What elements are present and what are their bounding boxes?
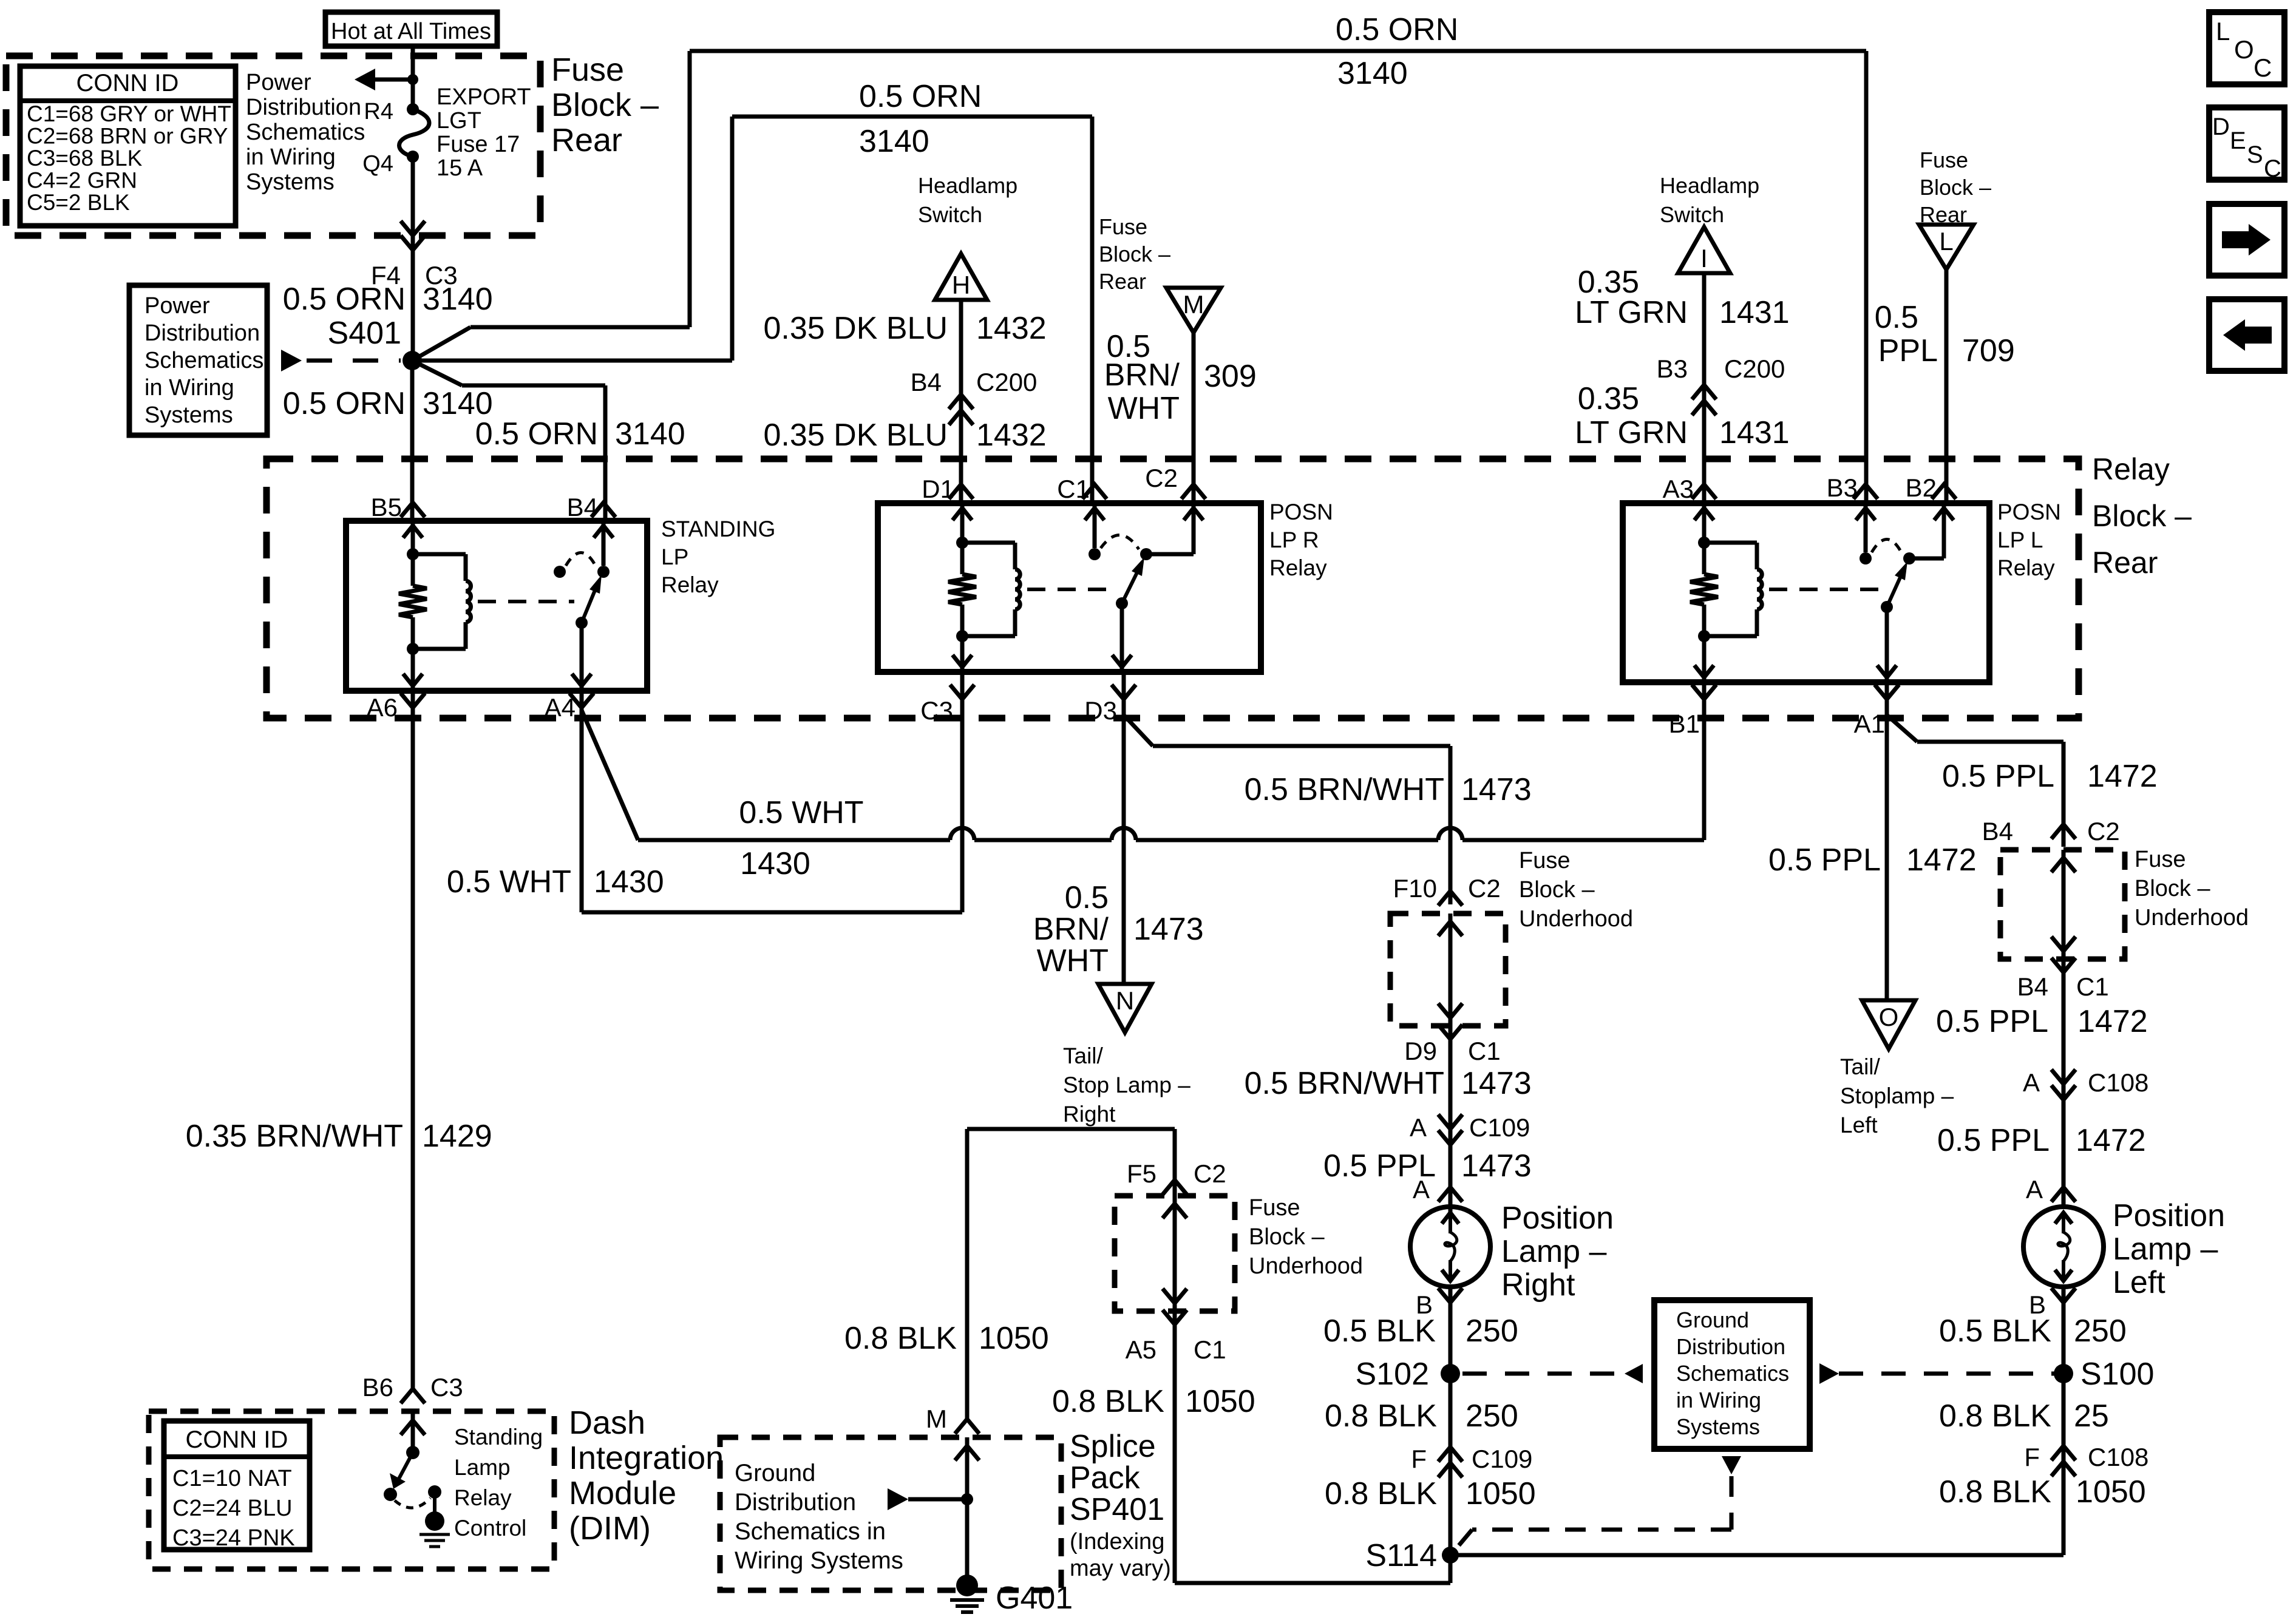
svg-text:Relay: Relay xyxy=(1997,555,2055,580)
svg-text:Standing: Standing xyxy=(454,1425,543,1449)
svg-text:A: A xyxy=(1413,1175,1430,1204)
svg-text:Lamp –: Lamp – xyxy=(2113,1232,2218,1267)
svg-text:L: L xyxy=(1939,227,1953,256)
svg-text:3140: 3140 xyxy=(615,416,685,452)
svg-text:Lamp –: Lamp – xyxy=(1501,1234,1607,1269)
svg-text:Relay: Relay xyxy=(1269,555,1327,580)
svg-text:1473: 1473 xyxy=(1133,912,1204,947)
svg-text:C108: C108 xyxy=(2088,1068,2148,1097)
svg-text:WHT: WHT xyxy=(1108,391,1180,426)
svg-text:1472: 1472 xyxy=(2076,1123,2146,1158)
svg-text:Fuse: Fuse xyxy=(551,52,624,88)
svg-text:0.5: 0.5 xyxy=(1065,880,1109,915)
svg-text:I: I xyxy=(1700,244,1708,273)
svg-text:Schematics in: Schematics in xyxy=(735,1518,886,1545)
svg-text:LP R: LP R xyxy=(1269,527,1319,552)
svg-text:F: F xyxy=(1411,1445,1427,1473)
svg-text:Underhood: Underhood xyxy=(2135,905,2249,931)
svg-text:3140: 3140 xyxy=(1337,56,1408,91)
svg-text:0.5 WHT: 0.5 WHT xyxy=(447,864,571,900)
svg-text:LT GRN: LT GRN xyxy=(1575,415,1688,450)
svg-text:1050: 1050 xyxy=(2076,1474,2146,1510)
svg-text:0.8 BLK: 0.8 BLK xyxy=(844,1321,957,1356)
svg-text:Right: Right xyxy=(1501,1267,1575,1303)
svg-text:Schematics: Schematics xyxy=(246,120,365,145)
svg-text:A: A xyxy=(1410,1113,1427,1142)
svg-text:0.5 ORN: 0.5 ORN xyxy=(1336,12,1458,47)
svg-text:Left: Left xyxy=(1840,1113,1878,1137)
svg-text:in Wiring: in Wiring xyxy=(246,144,336,170)
svg-text:A: A xyxy=(2023,1068,2040,1097)
svg-text:S401: S401 xyxy=(328,316,401,351)
svg-text:3140: 3140 xyxy=(423,386,493,421)
svg-text:0.8 BLK: 0.8 BLK xyxy=(1325,1398,1437,1434)
svg-text:S100: S100 xyxy=(2080,1357,2154,1392)
svg-text:709: 709 xyxy=(1962,333,2015,368)
svg-text:1472: 1472 xyxy=(2077,1004,2148,1039)
svg-text:Block –: Block – xyxy=(1519,877,1595,903)
svg-text:Switch: Switch xyxy=(918,202,982,227)
svg-text:Schematics: Schematics xyxy=(144,348,263,373)
svg-text:Position: Position xyxy=(1501,1201,1614,1236)
svg-text:250: 250 xyxy=(1466,1314,1518,1349)
svg-text:STANDING: STANDING xyxy=(661,517,775,541)
svg-text:C3=24 PNK: C3=24 PNK xyxy=(172,1525,295,1551)
svg-text:Lamp: Lamp xyxy=(454,1455,511,1480)
svg-text:M: M xyxy=(926,1405,947,1433)
svg-text:1430: 1430 xyxy=(594,864,664,900)
svg-text:0.5 ORN: 0.5 ORN xyxy=(859,79,982,114)
svg-text:Block –: Block – xyxy=(1920,175,1991,200)
svg-text:1472: 1472 xyxy=(2087,759,2158,794)
svg-text:Block –: Block – xyxy=(2092,499,2192,533)
svg-text:Position: Position xyxy=(2113,1198,2225,1233)
svg-text:may vary): may vary) xyxy=(1070,1556,1171,1581)
svg-text:0.5 BRN/WHT: 0.5 BRN/WHT xyxy=(1245,772,1444,807)
svg-text:0.8 BLK: 0.8 BLK xyxy=(1325,1476,1437,1511)
svg-text:C1: C1 xyxy=(2076,972,2109,1001)
svg-text:C1: C1 xyxy=(1468,1037,1501,1065)
svg-text:B1: B1 xyxy=(1669,710,1700,738)
svg-text:Ground: Ground xyxy=(1676,1307,1749,1332)
svg-text:C3=68 BLK: C3=68 BLK xyxy=(27,146,143,171)
svg-text:Relay: Relay xyxy=(661,572,719,597)
svg-text:Control: Control xyxy=(454,1516,526,1541)
svg-text:1429: 1429 xyxy=(422,1119,492,1154)
svg-text:A6: A6 xyxy=(367,693,398,722)
svg-text:0.5 ORN: 0.5 ORN xyxy=(283,282,406,317)
svg-text:C3: C3 xyxy=(920,696,953,725)
svg-text:O: O xyxy=(2234,35,2254,64)
svg-text:Pack: Pack xyxy=(1070,1460,1141,1496)
svg-text:S: S xyxy=(2247,141,2263,168)
svg-text:Ground: Ground xyxy=(735,1460,815,1486)
svg-text:C109: C109 xyxy=(1469,1113,1530,1142)
svg-text:Systems: Systems xyxy=(1676,1414,1760,1439)
svg-text:N: N xyxy=(1116,986,1134,1015)
svg-text:Distribution: Distribution xyxy=(735,1489,856,1516)
svg-text:Distribution: Distribution xyxy=(246,95,361,120)
svg-text:Systems: Systems xyxy=(144,402,233,428)
svg-text:C108: C108 xyxy=(2088,1443,2148,1471)
svg-text:S114: S114 xyxy=(1365,1538,1437,1573)
svg-text:Stop Lamp –: Stop Lamp – xyxy=(1063,1073,1190,1097)
svg-text:0.5 WHT: 0.5 WHT xyxy=(739,795,863,830)
svg-text:1473: 1473 xyxy=(1461,772,1532,807)
svg-text:BRN/: BRN/ xyxy=(1033,912,1109,947)
svg-text:C4=2 GRN: C4=2 GRN xyxy=(27,168,137,193)
svg-text:Left: Left xyxy=(2113,1265,2165,1300)
svg-text:3140: 3140 xyxy=(859,124,929,159)
svg-text:CONN ID: CONN ID xyxy=(186,1426,288,1453)
svg-text:CONN ID: CONN ID xyxy=(76,70,179,97)
svg-text:0.8 BLK: 0.8 BLK xyxy=(1939,1474,2051,1510)
svg-text:Rear: Rear xyxy=(1099,269,1146,294)
svg-text:0.5 ORN: 0.5 ORN xyxy=(283,386,406,421)
svg-text:250: 250 xyxy=(1466,1398,1518,1434)
svg-text:0.5 BLK: 0.5 BLK xyxy=(1939,1314,2051,1349)
svg-text:Rear: Rear xyxy=(551,122,622,158)
svg-text:0.5 PPL: 0.5 PPL xyxy=(1937,1123,2050,1158)
svg-text:(DIM): (DIM) xyxy=(569,1510,651,1547)
svg-text:Headlamp: Headlamp xyxy=(918,173,1017,198)
svg-text:M: M xyxy=(1183,290,1204,319)
svg-text:H: H xyxy=(952,271,970,299)
svg-text:D9: D9 xyxy=(1404,1037,1437,1065)
svg-text:1472: 1472 xyxy=(1906,842,1977,878)
svg-text:in Wiring: in Wiring xyxy=(1676,1388,1761,1412)
svg-text:Power: Power xyxy=(246,70,311,95)
svg-text:F: F xyxy=(2024,1443,2040,1471)
svg-text:Fuse 17: Fuse 17 xyxy=(436,132,520,157)
svg-text:B4: B4 xyxy=(2017,972,2048,1001)
svg-text:0.35 DK BLU: 0.35 DK BLU xyxy=(764,418,948,453)
svg-text:1050: 1050 xyxy=(1185,1384,1255,1419)
svg-text:Integration: Integration xyxy=(569,1440,724,1476)
svg-text:0.5 PPL: 0.5 PPL xyxy=(1768,842,1881,878)
svg-text:POSN: POSN xyxy=(1997,500,2061,524)
svg-text:C1=10 NAT: C1=10 NAT xyxy=(172,1466,292,1491)
svg-text:C2=24 BLU: C2=24 BLU xyxy=(172,1496,293,1521)
svg-text:1050: 1050 xyxy=(979,1321,1049,1356)
svg-text:S102: S102 xyxy=(1356,1357,1429,1392)
svg-text:Relay: Relay xyxy=(2092,452,2170,486)
svg-text:0.5 ORN: 0.5 ORN xyxy=(475,416,598,452)
svg-text:C: C xyxy=(2254,53,2272,82)
svg-text:0.5: 0.5 xyxy=(1875,300,1918,335)
svg-text:1431: 1431 xyxy=(1719,295,1790,330)
svg-text:Block –: Block – xyxy=(1099,242,1170,266)
svg-text:C: C xyxy=(2264,155,2281,182)
svg-text:B5: B5 xyxy=(371,493,402,521)
svg-text:Rear: Rear xyxy=(2092,546,2158,580)
svg-text:B3: B3 xyxy=(1657,354,1688,383)
svg-text:1473: 1473 xyxy=(1461,1066,1532,1101)
svg-text:309: 309 xyxy=(1204,359,1257,394)
svg-text:C1=68 GRY or WHT: C1=68 GRY or WHT xyxy=(27,101,231,126)
svg-text:C2: C2 xyxy=(1145,464,1178,492)
svg-text:C2: C2 xyxy=(2087,817,2120,846)
svg-text:1432: 1432 xyxy=(976,311,1047,346)
svg-text:0.8 BLK: 0.8 BLK xyxy=(1052,1384,1164,1419)
svg-text:Underhood: Underhood xyxy=(1519,906,1633,932)
svg-text:B4: B4 xyxy=(1982,817,2013,846)
svg-text:WHT: WHT xyxy=(1037,943,1109,978)
svg-text:C200: C200 xyxy=(976,368,1037,396)
svg-text:1431: 1431 xyxy=(1719,415,1790,450)
svg-text:Dash: Dash xyxy=(569,1405,645,1441)
svg-text:C1: C1 xyxy=(1194,1335,1226,1364)
svg-text:SP401: SP401 xyxy=(1070,1492,1164,1527)
svg-text:F5: F5 xyxy=(1127,1159,1156,1188)
svg-text:Hot at All Times: Hot at All Times xyxy=(331,19,491,44)
svg-text:R4: R4 xyxy=(364,99,393,124)
svg-text:A3: A3 xyxy=(1663,475,1694,503)
svg-text:B6: B6 xyxy=(362,1373,393,1402)
svg-text:Wiring Systems: Wiring Systems xyxy=(735,1547,903,1574)
svg-text:BRN/: BRN/ xyxy=(1104,358,1180,393)
svg-text:0.5 BRN/WHT: 0.5 BRN/WHT xyxy=(1245,1066,1444,1101)
svg-text:3140: 3140 xyxy=(423,282,493,317)
svg-text:1473: 1473 xyxy=(1461,1148,1532,1184)
svg-text:A: A xyxy=(2026,1175,2043,1204)
svg-text:Fuse: Fuse xyxy=(1249,1195,1300,1221)
svg-text:Underhood: Underhood xyxy=(1249,1253,1363,1279)
svg-text:0.35 DK BLU: 0.35 DK BLU xyxy=(764,311,948,346)
svg-text:Fuse: Fuse xyxy=(1519,848,1570,873)
svg-text:C2: C2 xyxy=(1194,1159,1226,1188)
svg-text:in Wiring: in Wiring xyxy=(144,375,234,401)
svg-text:LP: LP xyxy=(661,544,688,569)
svg-text:Block –: Block – xyxy=(1249,1224,1325,1250)
svg-text:E: E xyxy=(2230,127,2246,154)
svg-text:Headlamp: Headlamp xyxy=(1660,173,1759,198)
svg-text:Stoplamp –: Stoplamp – xyxy=(1840,1083,1954,1108)
svg-text:C2=68 BRN or GRY: C2=68 BRN or GRY xyxy=(27,124,228,149)
svg-text:LP L: LP L xyxy=(1997,527,2043,552)
svg-text:LT GRN: LT GRN xyxy=(1575,295,1688,330)
svg-text:Fuse: Fuse xyxy=(2135,847,2186,872)
svg-text:0.5 BLK: 0.5 BLK xyxy=(1323,1314,1436,1349)
svg-text:G401: G401 xyxy=(996,1581,1073,1616)
svg-text:0.35: 0.35 xyxy=(1578,381,1639,416)
svg-text:Power: Power xyxy=(144,293,210,319)
svg-text:C200: C200 xyxy=(1724,354,1785,383)
svg-text:250: 250 xyxy=(2074,1314,2127,1349)
svg-text:0.8 BLK: 0.8 BLK xyxy=(1939,1398,2051,1434)
svg-text:0.5 PPL: 0.5 PPL xyxy=(1942,759,2054,794)
svg-text:1430: 1430 xyxy=(740,846,810,881)
svg-text:1050: 1050 xyxy=(1466,1476,1536,1511)
svg-text:Module: Module xyxy=(569,1475,676,1511)
svg-text:0.5 PPL: 0.5 PPL xyxy=(1936,1004,2048,1039)
svg-text:Tail/: Tail/ xyxy=(1063,1043,1104,1068)
svg-text:D: D xyxy=(2212,114,2230,140)
svg-text:A5: A5 xyxy=(1126,1335,1156,1364)
svg-text:Q4: Q4 xyxy=(362,151,393,177)
svg-text:Schematics: Schematics xyxy=(1676,1361,1789,1386)
svg-text:Block –: Block – xyxy=(2135,876,2210,901)
svg-text:Splice: Splice xyxy=(1070,1429,1156,1464)
svg-text:F10: F10 xyxy=(1393,874,1437,903)
svg-text:POSN: POSN xyxy=(1269,500,1333,524)
svg-text:Block –: Block – xyxy=(551,87,659,123)
svg-text:15 A: 15 A xyxy=(436,155,483,181)
svg-text:0.35 BRN/WHT: 0.35 BRN/WHT xyxy=(186,1119,403,1154)
svg-text:Switch: Switch xyxy=(1660,202,1724,227)
svg-text:C2: C2 xyxy=(1468,874,1501,903)
svg-text:O: O xyxy=(1879,1003,1899,1031)
svg-text:1432: 1432 xyxy=(976,418,1047,453)
svg-text:C5=2 BLK: C5=2 BLK xyxy=(27,190,130,215)
svg-text:PPL: PPL xyxy=(1878,333,1938,368)
svg-text:B4: B4 xyxy=(911,368,942,396)
svg-text:C3: C3 xyxy=(430,1373,463,1402)
svg-text:Fuse: Fuse xyxy=(1099,214,1147,239)
svg-text:C109: C109 xyxy=(1472,1445,1532,1473)
svg-text:LGT: LGT xyxy=(436,108,481,134)
svg-text:Distribution: Distribution xyxy=(144,320,260,346)
svg-text:EXPORT: EXPORT xyxy=(436,84,531,110)
svg-text:A1: A1 xyxy=(1854,710,1885,738)
svg-text:Right: Right xyxy=(1063,1102,1116,1127)
svg-text:Tail/: Tail/ xyxy=(1840,1054,1881,1079)
svg-text:L: L xyxy=(2216,17,2230,46)
svg-text:25: 25 xyxy=(2074,1398,2109,1434)
svg-text:Fuse: Fuse xyxy=(1920,147,1968,172)
svg-text:Relay: Relay xyxy=(454,1485,512,1510)
svg-text:Distribution: Distribution xyxy=(1676,1334,1785,1359)
svg-text:Systems: Systems xyxy=(246,169,335,195)
svg-text:(Indexing: (Indexing xyxy=(1070,1529,1164,1554)
svg-text:D3: D3 xyxy=(1084,696,1117,725)
